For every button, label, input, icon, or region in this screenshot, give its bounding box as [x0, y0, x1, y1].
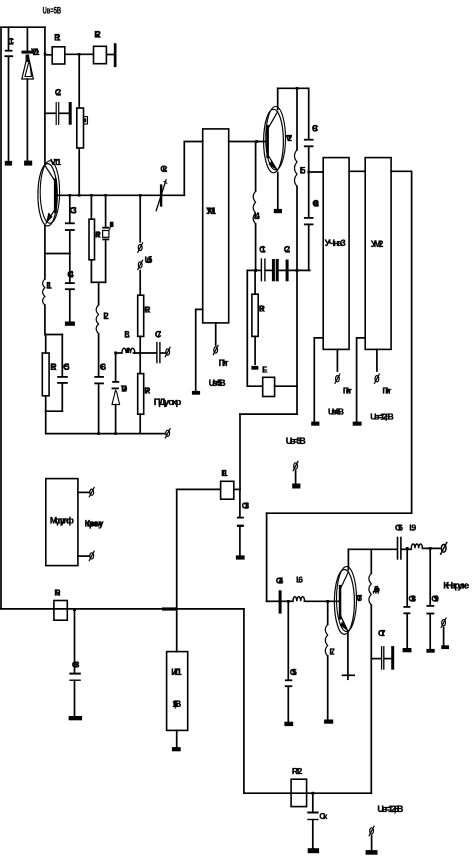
wire Modulator stub top — [78, 491, 89, 493]
wire UM1 ground pin — [196, 309, 203, 391]
junction tick IP1 — [162, 607, 177, 610]
label PDu — [154, 397, 182, 408]
svg-text:VT3: VT3 — [356, 593, 363, 603]
ground UM2 — [353, 422, 362, 426]
wire jog emitter to C3 — [45, 253, 70, 255]
battery block IP1 — [167, 652, 188, 731]
wire UCh ground pin — [314, 338, 323, 422]
label Ub — [145, 255, 153, 266]
wire collector rail y549 — [348, 548, 397, 550]
wire x297 down — [296, 270, 298, 414]
label Pit UM2 — [382, 385, 391, 395]
capacitor C7 — [155, 329, 165, 363]
wire R3 to base rail — [78, 148, 80, 195]
ground C1 — [5, 161, 12, 166]
ground UM1 — [192, 391, 200, 395]
wire base rail y195 — [57, 194, 185, 196]
svg-text:C15: C15 — [290, 667, 297, 677]
wire VT3 collector up — [347, 549, 349, 569]
svg-text:R7: R7 — [144, 385, 150, 395]
wire R2 to terminal — [106, 54, 113, 56]
wire y414 to C13 bus — [240, 414, 297, 489]
ground VT2 emitter — [274, 209, 282, 213]
testpoint Modulator bottom — [89, 551, 94, 561]
inductor L9 — [409, 522, 440, 548]
capacitor C6 — [94, 362, 106, 434]
label K Nagruzke — [443, 581, 469, 592]
capacitor C20 — [307, 793, 328, 848]
wire UM1 power pin — [215, 323, 217, 345]
svg-text:C9: C9 — [312, 123, 319, 133]
svg-text:FL1: FL1 — [221, 468, 228, 478]
svg-text:R2: R2 — [94, 30, 101, 40]
inductor L6 — [293, 575, 339, 602]
resistor R5 — [42, 335, 57, 412]
diode VD2 varicap — [112, 353, 128, 434]
svg-text:VT1: VT1 — [50, 157, 61, 167]
wire L1 to R5/C5 top — [45, 334, 62, 336]
label Uv=5V chassis — [286, 436, 307, 446]
wire UCh to UM2 — [349, 170, 365, 172]
diode VD1 — [22, 27, 40, 160]
wire R5 C5 bottom join — [46, 411, 63, 433]
inductor L7 — [325, 602, 335, 720]
node C20 tap — [311, 792, 314, 795]
wire y513 feed — [267, 512, 412, 514]
wire VT2 collector up — [277, 88, 279, 109]
filter FL1 — [221, 468, 234, 499]
svg-text:L2: L2 — [103, 311, 109, 321]
label Uv=5V UCh — [328, 407, 344, 417]
wire right bus x244 down — [243, 609, 245, 793]
svg-text:Ск: Ск — [319, 811, 328, 821]
svg-text:Кприему: Кприему — [85, 519, 105, 530]
label Pit UCh — [343, 385, 352, 395]
svg-text:Модутлф: Модутлф — [50, 515, 74, 525]
svg-text:С5: С5 — [63, 362, 70, 372]
block Modulator — [46, 479, 78, 566]
wire chassis 5V — [295, 471, 297, 484]
resistor R4 — [89, 195, 101, 282]
svg-text:L1: L1 — [46, 281, 52, 291]
testpoint chassis 5V — [293, 461, 298, 471]
ground C20 — [308, 848, 319, 853]
node Ub branch tap — [139, 194, 142, 197]
ground C4 — [65, 322, 75, 326]
block UCh na3 — [323, 158, 349, 350]
svg-text:L3: L3 — [124, 329, 130, 339]
svg-text:C14: C14 — [276, 575, 284, 585]
label K priemniku — [85, 519, 105, 530]
ground chassis 12V — [366, 850, 378, 855]
ground IP1 — [172, 747, 181, 751]
wire IP1 bottom — [176, 730, 178, 747]
svg-text:1,6В: 1,6В — [172, 699, 182, 709]
wire bottom rail y433 — [46, 433, 166, 435]
svg-text:С7: С7 — [155, 329, 162, 339]
node L4 bottom — [254, 269, 257, 272]
capacitor C10 — [304, 172, 320, 270]
svg-text:УЧна3: УЧна3 — [325, 238, 346, 248]
filter FL2 — [262, 364, 275, 396]
testpoint chassis 12V — [369, 826, 374, 836]
svg-text:С8: С8 — [72, 660, 80, 670]
node trimmer tap — [104, 194, 107, 197]
wire caps rail y270 — [247, 269, 309, 271]
svg-text:L7: L7 — [329, 647, 335, 657]
svg-text:Пит: Пит — [382, 385, 391, 395]
svg-text:C3: C3 — [70, 205, 77, 215]
wire top +5V rail — [1, 26, 45, 28]
label Uv=12.6V UM2 — [370, 411, 394, 421]
svg-text:R9: R9 — [54, 587, 60, 597]
svg-text:Uв=5В: Uв=5В — [209, 378, 227, 388]
svg-text:L4: L4 — [254, 211, 260, 221]
svg-text:R8: R8 — [259, 303, 265, 313]
svg-text:VD1: VD1 — [31, 47, 40, 57]
transistor VT1 — [38, 157, 62, 226]
capacitor C1 — [4, 27, 14, 160]
testpoint UCh Pit — [335, 374, 340, 384]
svg-text:С2: С2 — [55, 88, 62, 98]
svg-text:R5: R5 — [50, 362, 57, 372]
trimmer capacitor — [102, 195, 113, 282]
node L5 top — [296, 87, 299, 90]
block UM2 — [365, 158, 391, 350]
svg-text:Uв=12,6В: Uв=12,6В — [377, 804, 404, 814]
wire to R1 — [45, 54, 52, 56]
node C19 tap — [429, 547, 432, 550]
wire R1 to R2 — [65, 53, 94, 55]
wire bottom rail y793 — [244, 792, 371, 794]
ground VD1 — [24, 161, 32, 166]
capacitor C3 — [65, 195, 77, 253]
capacitor C9 — [304, 88, 319, 172]
capacitor C8 — [69, 610, 80, 716]
svg-text:VD2: VD2 — [121, 383, 128, 393]
wire FL1 left — [177, 489, 221, 609]
svg-text:УМ2: УМ2 — [371, 239, 384, 249]
wire rail corner up to UM1 — [184, 142, 202, 196]
svg-text:КНагрузке: КНагрузке — [443, 581, 469, 592]
svg-text:R4: R4 — [95, 231, 101, 240]
wire bottom rail y609 — [1, 608, 244, 610]
ground R8 — [251, 366, 258, 370]
wire FL2 left feed — [247, 270, 262, 386]
node L2 bottom rail tap — [97, 432, 100, 435]
wire to UCh block input — [309, 171, 324, 173]
capacitor C5 — [57, 335, 70, 412]
wire VT2 emitter — [277, 173, 279, 209]
wire FL1 right — [234, 488, 240, 490]
capacitor C19 — [426, 548, 439, 649]
terminal bar antenna — [114, 43, 117, 67]
svg-text:FL: FL — [262, 364, 268, 374]
ground UCh — [311, 422, 319, 426]
jack Ub upper — [138, 242, 143, 252]
node VD2 bottom rail tap — [114, 432, 117, 435]
wire x266 down to VT3 base — [267, 513, 279, 601]
capacitor C16 — [395, 522, 403, 559]
svg-text:Uв=12,6В: Uв=12,6В — [370, 411, 394, 421]
svg-text:Uв=5В: Uв=5В — [43, 6, 62, 17]
wire to IP1 — [176, 609, 178, 652]
capacitor C14 — [276, 575, 293, 613]
wire UM2 ground pin — [357, 338, 366, 422]
node C15 tap — [287, 600, 290, 603]
wire left border bus — [0, 27, 2, 609]
wire chassis load — [443, 627, 445, 645]
resistor R8 — [252, 270, 265, 364]
ground C18 — [403, 648, 412, 652]
svg-text:L6: L6 — [296, 575, 303, 585]
testpoint end of y353 rail — [165, 347, 170, 357]
svg-text:L5: L5 — [300, 165, 306, 175]
variable capacitor Ck — [156, 164, 167, 211]
wire jack to R6 — [139, 271, 141, 296]
svg-text:Cк: Cк — [160, 164, 167, 175]
node L5 bottom — [296, 269, 299, 272]
testpoint chassis load — [441, 618, 446, 628]
node R1 tap — [44, 53, 47, 56]
node C8 tap — [73, 608, 76, 611]
transistor VT2 — [264, 107, 293, 173]
svg-text:L9: L9 — [409, 522, 416, 532]
wire C16 to L9 — [402, 548, 412, 550]
ground C8 — [69, 716, 83, 720]
label Uv=5V UM1 — [209, 378, 227, 388]
testpoint UM2 Pit — [374, 374, 379, 384]
node C3 tap — [69, 194, 72, 197]
svg-text:R1: R1 — [54, 32, 61, 42]
svg-text:C19: C19 — [431, 593, 439, 603]
capacitor C12 series — [273, 244, 290, 281]
svg-text:С6: С6 — [100, 362, 107, 372]
resistor R12 — [291, 766, 307, 807]
label Uv=12.6V bottom — [377, 804, 404, 814]
wire y353 rail — [116, 352, 122, 354]
wire +5V drop to VT1 — [44, 27, 46, 164]
terminal output — [440, 542, 447, 555]
svg-text:Пит: Пит — [343, 385, 352, 395]
svg-text:Пит: Пит — [219, 358, 230, 368]
choke Dr — [369, 549, 380, 793]
wire UM2 power pin — [376, 349, 378, 371]
svg-text:C13: C13 — [242, 501, 250, 511]
capacitor C2 — [45, 88, 70, 126]
resistor R3 — [77, 108, 88, 148]
testpoint end of bottom rail — [165, 428, 170, 438]
capacitor C18 — [403, 549, 416, 648]
label Pit UM1 — [219, 358, 230, 368]
block UM1 — [203, 129, 229, 323]
wire VT1 emitter down — [44, 226, 46, 254]
svg-text:C16: C16 — [395, 522, 403, 532]
svg-text:R6: R6 — [144, 304, 150, 314]
svg-text:УМ1: УМ1 — [206, 206, 217, 217]
wire UM2 out bus — [391, 171, 412, 513]
capacitor C13 — [237, 489, 250, 555]
capacitor C15 — [285, 601, 297, 721]
node R3 tap — [78, 53, 81, 56]
wire collector top rail — [278, 87, 309, 89]
svg-text:С2: С2 — [284, 244, 291, 254]
capacitor C4 stack — [65, 254, 75, 322]
capacitor C17 — [371, 628, 392, 670]
wire VT3 emitter — [343, 631, 355, 679]
inductor L3 — [122, 329, 156, 353]
wire UCh power pin — [336, 349, 338, 371]
wire Ub branch — [139, 195, 141, 242]
node C10 top — [307, 171, 310, 174]
svg-text:Uв=5В: Uв=5В — [286, 436, 307, 446]
wire Modulator stub bottom — [78, 555, 89, 557]
wire chassis 12V — [371, 836, 373, 851]
resistor R2 — [94, 30, 107, 64]
node L4 tap — [255, 140, 258, 143]
resistor R1 — [52, 32, 65, 64]
resistor R9 — [54, 587, 67, 620]
svg-text:C17: C17 — [378, 628, 386, 638]
capacitor C11 series — [259, 244, 266, 281]
svg-text:C18: C18 — [409, 593, 417, 603]
inductor L4 — [253, 142, 260, 271]
wire UM1 out to VT2 base — [229, 141, 267, 143]
svg-text:VT2: VT2 — [286, 133, 293, 143]
node VD2 top — [114, 352, 117, 355]
ground C19 — [426, 649, 434, 653]
svg-text:Uв=5В: Uв=5В — [328, 407, 344, 417]
ground C13 — [236, 555, 245, 559]
transistor VT3 — [334, 567, 362, 635]
node L7 tap — [326, 600, 329, 603]
label Uv=5V top — [43, 6, 62, 17]
jack Ub lower — [138, 260, 143, 270]
svg-text:ИП1: ИП1 — [171, 667, 182, 677]
testpoint UM1 Pit — [213, 345, 218, 355]
wire R3 drop — [78, 54, 80, 108]
ground chassis 5V — [292, 484, 300, 489]
svg-text:С1: С1 — [259, 244, 266, 254]
node R4 tap — [90, 194, 93, 197]
node C18 tap — [406, 547, 409, 550]
svg-text:Uб: Uб — [145, 255, 153, 266]
inductor L5 — [295, 88, 306, 270]
svg-text:С4: С4 — [67, 269, 74, 279]
wire FL2 right — [275, 385, 297, 387]
svg-text:С1: С1 — [8, 37, 15, 47]
wire R4 trimmer bottom join — [91, 282, 105, 305]
node R3 bottom tap — [78, 194, 81, 197]
svg-text:Др: Др — [373, 584, 380, 594]
svg-text:R12: R12 — [292, 766, 303, 776]
svg-text:C10: C10 — [312, 198, 319, 208]
testpoint Modulator top — [89, 487, 94, 497]
ground C15 — [284, 722, 293, 726]
ground L7 — [324, 720, 333, 724]
ground chassis load — [441, 645, 449, 649]
svg-text:ПДу охр: ПДу охр — [154, 397, 182, 408]
inductor L2 — [96, 305, 109, 376]
resistor R6 — [138, 295, 151, 353]
inductor L1 — [43, 254, 53, 335]
resistor R7 — [138, 353, 151, 434]
